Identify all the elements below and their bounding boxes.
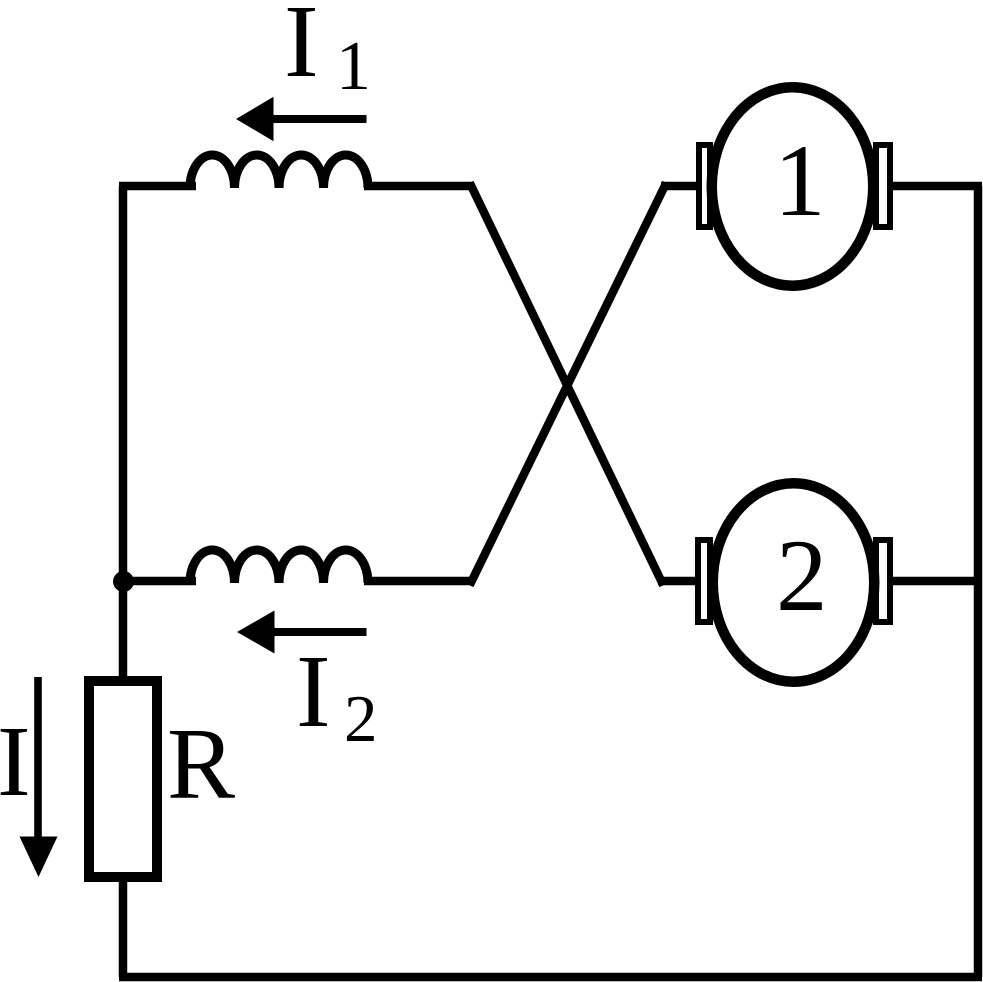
wire left vertical rail — [119, 186, 128, 680]
svg-text:1: 1 — [336, 28, 371, 105]
svg-text:2: 2 — [344, 682, 378, 756]
lamp U1 circle — [712, 87, 874, 286]
wire left vertical below resistor — [119, 882, 128, 977]
node junction dot — [113, 571, 134, 592]
svg-text:2: 2 — [776, 519, 828, 633]
wire diagonal from top-left down to lamp 2 — [472, 187, 662, 582]
current arrow I downward — [34, 677, 42, 857]
wire from L2 to crossing — [364, 577, 472, 586]
lamp 2 right terminal bracket — [876, 540, 890, 622]
svg-text:I: I — [296, 634, 331, 749]
resistor R — [89, 681, 157, 877]
svg-text:R: R — [167, 708, 235, 821]
current arrow I1 — [256, 115, 367, 123]
wire from lamp 1 right terminal to right rail — [893, 182, 982, 191]
wire diagonal from middle-left up to lamp 1 — [472, 187, 665, 582]
svg-text:1: 1 — [774, 124, 826, 238]
current arrow I2 — [257, 628, 367, 636]
wire top-left horizontal — [119, 182, 196, 191]
wire from lamp 2 right terminal to right rail — [893, 577, 978, 586]
wire horizontal into lamp 2 left terminal — [658, 577, 699, 586]
wire right vertical rail — [974, 186, 983, 977]
lamp 1 right terminal bracket — [876, 145, 890, 227]
svg-text:I: I — [284, 0, 319, 99]
lamp U2 circle — [713, 483, 875, 682]
svg-text:I: I — [0, 705, 31, 817]
wire horizontal into lamp 1 left terminal — [661, 182, 699, 191]
inductor L1 — [190, 155, 368, 188]
inductor L2 — [190, 550, 368, 583]
wire middle horizontal from junction — [123, 577, 196, 586]
wire bottom horizontal — [119, 973, 982, 982]
lamp 2 left terminal bracket — [698, 540, 710, 622]
lamp 1 left terminal bracket — [699, 145, 710, 227]
wire from L1 to crossing — [364, 182, 472, 191]
